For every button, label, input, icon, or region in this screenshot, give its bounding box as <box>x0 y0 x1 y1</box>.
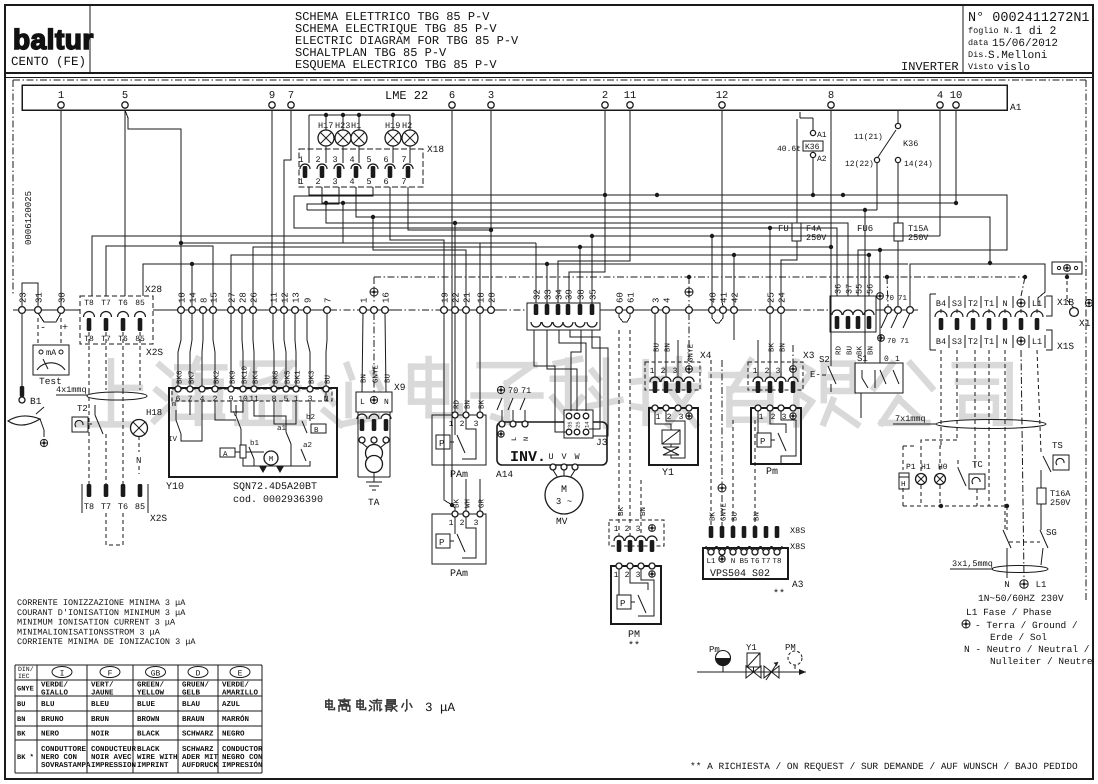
svg-text:1N~50/60HZ 230V: 1N~50/60HZ 230V <box>978 593 1064 604</box>
svg-text:SG: SG <box>1046 528 1057 538</box>
svg-text:P: P <box>439 538 444 548</box>
Y10 pin 4 <box>199 386 205 392</box>
Y10 pin N <box>323 386 329 392</box>
terminal PE 374 <box>370 288 378 296</box>
X1 plug <box>1052 262 1082 274</box>
svg-text:34: 34 <box>555 289 565 300</box>
svg-text:L: L <box>511 437 519 441</box>
wires to X4 <box>654 313 656 377</box>
wire terminal25 feed <box>769 228 771 306</box>
svg-text:250V: 250V <box>806 233 827 243</box>
svg-text:3: 3 <box>673 367 678 376</box>
svg-text:BK: BK <box>454 498 462 508</box>
svg-text:M: M <box>561 485 567 496</box>
Y10 pin 5 <box>283 386 289 392</box>
servomotor Y10 box <box>169 388 337 477</box>
svg-text:6: 6 <box>383 155 388 165</box>
svg-text:ESQUEMA ELECTRICO TBG 85 P-V: ESQUEMA ELECTRICO TBG 85 P-V <box>295 58 497 72</box>
svg-text:31: 31 <box>35 292 45 303</box>
svg-text:250V: 250V <box>1050 498 1071 508</box>
svg-text:3: 3 <box>636 525 641 534</box>
air pressure switch PM <box>611 566 661 624</box>
svg-text:T1: T1 <box>984 299 994 309</box>
svg-text:S2: S2 <box>819 355 830 365</box>
svg-text:X4: X4 <box>700 350 712 361</box>
svg-text:N° 0002411272N1: N° 0002411272N1 <box>968 11 1090 26</box>
svg-text:BK: BK <box>17 731 26 739</box>
svg-text:12: 12 <box>716 90 729 102</box>
svg-text:85: 85 <box>135 299 145 308</box>
svg-text:61: 61 <box>627 292 637 303</box>
Y10 pin 2 <box>212 386 218 392</box>
svg-text:3: 3 <box>332 155 337 165</box>
svg-text:0006120025: 0006120025 <box>24 191 34 245</box>
svg-text:J3: J3 <box>596 437 608 448</box>
svg-text:T1: T1 <box>984 337 994 347</box>
svg-text:L: L <box>360 398 365 407</box>
connector J3 <box>564 410 593 438</box>
svg-text:250V: 250V <box>908 233 929 243</box>
svg-text:a1: a1 <box>277 425 287 433</box>
svg-text:INV.: INV. <box>510 449 546 466</box>
ignition transformer TA connector X9 <box>356 392 392 412</box>
svg-text:SCHWARZ: SCHWARZ <box>182 745 214 754</box>
svg-text:BLEU: BLEU <box>91 701 110 709</box>
svg-text:CORRENTE IONIZZAZIONE MINIMA 3: CORRENTE IONIZZAZIONE MINIMA 3 μA <box>17 598 186 608</box>
svg-text:Y10: Y10 <box>166 482 184 493</box>
wires to VPS <box>710 360 712 534</box>
svg-text:70: 70 <box>887 337 897 346</box>
svg-text:2: 2 <box>315 177 320 187</box>
svg-text:BU: BU <box>732 512 740 521</box>
svg-text:4: 4 <box>349 177 354 187</box>
svg-text:N: N <box>1002 337 1007 347</box>
svg-text:21: 21 <box>463 292 473 303</box>
svg-text:1: 1 <box>656 413 661 422</box>
svg-text:1: 1 <box>449 420 454 429</box>
svg-text:T6: T6 <box>118 502 128 512</box>
TA earth symbol <box>373 472 375 482</box>
milliammeter test instrument <box>37 318 39 345</box>
svg-text:BRUNO: BRUNO <box>41 715 64 724</box>
svg-text:BLACK: BLACK <box>137 745 160 754</box>
svg-text:14: 14 <box>584 421 591 428</box>
svg-text:A: A <box>223 451 228 459</box>
svg-text:a2: a2 <box>303 441 312 450</box>
svg-text:L1: L1 <box>706 558 716 566</box>
svg-text:BK4: BK4 <box>253 370 261 384</box>
svg-text:b2: b2 <box>306 413 315 422</box>
svg-text:X1: X1 <box>1079 318 1091 329</box>
svg-text:3 ~: 3 ~ <box>556 497 572 507</box>
svg-text:+: + <box>62 323 68 334</box>
svg-text:IMPRINT: IMPRINT <box>137 762 169 770</box>
wire 31-30 meter link <box>38 313 61 322</box>
svg-text:4x1mmq: 4x1mmq <box>56 385 87 395</box>
wire terminal12 drop <box>722 110 723 306</box>
wire trunk A y=195 <box>309 187 1007 296</box>
svg-text:mA: mA <box>46 348 57 358</box>
svg-text:4: 4 <box>663 298 673 303</box>
svg-text:Visto: Visto <box>968 62 994 72</box>
svg-text:P: P <box>760 437 765 447</box>
svg-text:L1: L1 <box>1032 299 1042 309</box>
svg-text:24: 24 <box>778 292 788 303</box>
svg-text:T7: T7 <box>101 502 111 512</box>
svg-text:1 di 2: 1 di 2 <box>1015 25 1057 38</box>
svg-text:VERDE/: VERDE/ <box>222 681 250 690</box>
svg-text:ADER MIT: ADER MIT <box>182 754 219 762</box>
svg-text:85: 85 <box>135 502 145 512</box>
svg-text:1: 1 <box>298 177 303 187</box>
svg-text:GNYE: GNYE <box>17 686 34 694</box>
svg-text:MARRÓN: MARRÓN <box>222 714 249 724</box>
svg-text:BRUN: BRUN <box>91 716 109 724</box>
svg-text:WIRE WITH: WIRE WITH <box>137 754 178 762</box>
svg-text:T6: T6 <box>750 557 760 566</box>
svg-text:X8S: X8S <box>790 526 805 536</box>
butterfly valve symbol <box>764 666 779 678</box>
svg-text:IV: IV <box>168 436 178 444</box>
svg-text:MV: MV <box>556 516 568 527</box>
svg-text:55: 55 <box>855 284 865 294</box>
svg-text:3: 3 <box>488 90 494 102</box>
svg-text:14: 14 <box>189 292 199 303</box>
svg-text:NERO: NERO <box>41 730 60 739</box>
svg-text:2: 2 <box>765 367 770 376</box>
svg-text:BU: BU <box>17 701 25 709</box>
wires 32-35 up <box>546 264 548 304</box>
svg-text:GNYE: GNYE <box>720 502 729 521</box>
svg-text:m: m <box>172 401 176 409</box>
svg-text:K36: K36 <box>805 143 820 152</box>
svg-text:GREEN/: GREEN/ <box>137 681 165 690</box>
svg-text:VERT/: VERT/ <box>91 681 114 690</box>
svg-text:2: 2 <box>661 367 666 376</box>
svg-text:data: data <box>968 38 988 48</box>
svg-text:2: 2 <box>460 519 465 528</box>
svg-text:PAm: PAm <box>450 569 468 580</box>
PE dash-dot trunk <box>374 276 1025 278</box>
wire terminal9 drop <box>271 110 273 306</box>
wire trunk H y=263 <box>910 264 1045 306</box>
svg-text:T7: T7 <box>101 299 111 308</box>
wire trunk F y=228 <box>294 187 837 296</box>
svg-text:1: 1 <box>650 367 655 376</box>
svg-text:4: 4 <box>937 90 943 102</box>
svg-text:T2: T2 <box>968 299 978 309</box>
svg-text:IMPRESSION: IMPRESSION <box>91 761 136 770</box>
svg-text:7: 7 <box>401 155 406 165</box>
svg-text:T8: T8 <box>84 502 94 512</box>
svg-text:AZUL: AZUL <box>222 701 241 709</box>
inverter INV A14 <box>497 422 607 465</box>
wires 40 41 loop <box>712 313 723 323</box>
wires X1S down <box>940 350 942 446</box>
svg-text:B4: B4 <box>936 337 946 347</box>
svg-text:GR: GR <box>478 498 487 508</box>
motor MV <box>553 470 558 478</box>
wire trunk I y=246 <box>106 246 213 306</box>
terminals 70 71 <box>877 293 884 300</box>
terminal PE 689 <box>685 288 693 296</box>
svg-text:NERO CON: NERO CON <box>41 753 77 762</box>
dashed bus y=506 <box>903 505 1007 507</box>
svg-text:40: 40 <box>709 292 719 303</box>
svg-text:2: 2 <box>625 525 630 534</box>
wires to X3 <box>757 340 759 377</box>
svg-text:E-: E- <box>810 370 821 380</box>
svg-text:IEC: IEC <box>18 673 30 680</box>
svg-text:27: 27 <box>228 292 238 303</box>
svg-text:SQN72.4D5A20BT: SQN72.4D5A20BT <box>233 482 317 493</box>
svg-text:30: 30 <box>58 292 68 303</box>
svg-text:N: N <box>731 558 736 566</box>
svg-text:3: 3 <box>474 519 479 528</box>
wire trunk G y=236 <box>92 236 940 296</box>
svg-text:10: 10 <box>178 292 188 303</box>
svg-text:X2S: X2S <box>146 347 163 358</box>
svg-text:BK6: BK6 <box>176 370 185 384</box>
svg-text:COURANT D'IONISATION MINIMUM 3: COURANT D'IONISATION MINIMUM 3 μA <box>17 608 186 618</box>
svg-text:Pm: Pm <box>766 467 778 478</box>
svg-text:U: U <box>548 452 553 462</box>
svg-text:L1 Fase / Phase: L1 Fase / Phase <box>966 607 1052 618</box>
svg-text:56: 56 <box>866 284 876 294</box>
svg-text:BU: BU <box>847 346 855 355</box>
wire terminal5 drop <box>124 110 126 296</box>
svg-text:GRUEN/: GRUEN/ <box>182 681 210 690</box>
svg-text:P1: P1 <box>906 463 916 472</box>
svg-text:LME 22: LME 22 <box>385 89 428 103</box>
svg-text:GNYE: GNYE <box>372 364 381 383</box>
Y10 pin 11 <box>251 386 257 392</box>
svg-text:8: 8 <box>828 90 834 102</box>
Y10 pin 1 <box>293 386 299 392</box>
svg-text:9: 9 <box>304 298 314 303</box>
svg-text:GIALLO: GIALLO <box>41 689 69 698</box>
wires block to J3 <box>534 330 567 432</box>
svg-text:P: P <box>620 599 625 609</box>
svg-text:A14: A14 <box>496 469 513 480</box>
wire terminal4 drop <box>939 110 941 236</box>
svg-text:5: 5 <box>284 395 289 404</box>
svg-text:2: 2 <box>771 413 776 422</box>
svg-text:F: F <box>108 670 113 679</box>
svg-text:foglio N.: foglio N. <box>968 26 1014 36</box>
svg-text:CONDUCTEUR: CONDUCTEUR <box>91 745 137 754</box>
svg-text:3x1,5mmq: 3x1,5mmq <box>952 559 993 569</box>
svg-text:N: N <box>384 398 389 407</box>
svg-text:7: 7 <box>401 177 406 187</box>
switch S1 stub <box>860 393 862 418</box>
svg-text:NEGRO: NEGRO <box>222 730 245 739</box>
lamp H1 <box>916 474 927 485</box>
wire terminal6 drop <box>451 110 453 505</box>
connector X2S lower <box>87 484 92 497</box>
svg-text:22: 22 <box>452 292 462 303</box>
control box A1 LME 22 <box>22 85 1007 110</box>
svg-text:70: 70 <box>885 294 895 303</box>
svg-text:X3: X3 <box>803 350 815 361</box>
svg-text:BK2: BK2 <box>213 370 222 384</box>
svg-text:3: 3 <box>474 420 479 429</box>
svg-text:A3: A3 <box>792 579 804 590</box>
svg-text:T2: T2 <box>968 337 978 347</box>
colour code table <box>15 664 262 666</box>
svg-text:BK5: BK5 <box>285 370 293 384</box>
svg-text:B: B <box>314 427 319 435</box>
svg-text:H0: H0 <box>938 463 948 472</box>
schematic dash-dot frame <box>13 79 1086 81</box>
svg-text:42: 42 <box>731 292 741 303</box>
svg-text:5: 5 <box>366 177 371 187</box>
svg-text:2: 2 <box>602 90 608 102</box>
svg-text:12: 12 <box>281 292 291 303</box>
svg-text:S3: S3 <box>952 299 962 309</box>
svg-text:**: ** <box>628 640 640 652</box>
svg-text:CONDUTTORE: CONDUTTORE <box>41 745 87 754</box>
svg-text:E: E <box>238 670 243 679</box>
svg-text:I: I <box>60 670 65 679</box>
svg-text:BN: BN <box>754 512 762 521</box>
svg-text:GELB: GELB <box>182 689 201 698</box>
wires terminals to Y10 <box>180 313 182 340</box>
svg-text:VERDE/: VERDE/ <box>41 681 69 690</box>
svg-text:32: 32 <box>533 289 543 300</box>
svg-text:-: - <box>40 323 46 334</box>
svg-text:2: 2 <box>315 155 320 165</box>
svg-text:PM: PM <box>628 630 640 641</box>
svg-text:**: ** <box>773 588 785 600</box>
svg-text:18: 18 <box>477 292 487 303</box>
svg-text:BN: BN <box>17 716 25 724</box>
svg-text:20: 20 <box>488 292 498 303</box>
svg-text:BK10: BK10 <box>241 365 250 384</box>
svg-text:23: 23 <box>19 292 29 303</box>
svg-text:15/06/2012: 15/06/2012 <box>992 38 1058 50</box>
wire trunk B y=203 <box>322 187 956 203</box>
svg-text:33: 33 <box>544 289 554 300</box>
svg-text:71: 71 <box>898 295 908 303</box>
svg-text:L1: L1 <box>1036 580 1047 590</box>
svg-text:D: D <box>196 670 201 679</box>
relay coil K36 <box>812 118 814 130</box>
svg-text:TC: TC <box>972 460 983 470</box>
svg-text:SCHWARZ: SCHWARZ <box>182 730 214 739</box>
wire terminal10 drop <box>955 110 957 203</box>
svg-text:37: 37 <box>845 284 855 294</box>
svg-text:B5: B5 <box>739 558 749 566</box>
svg-text:X1S: X1S <box>1057 341 1074 352</box>
svg-text:cod. 0002936390: cod. 0002936390 <box>233 494 323 506</box>
svg-text:X28: X28 <box>145 284 162 295</box>
svg-text:W: W <box>574 452 580 462</box>
svg-text:25: 25 <box>767 292 777 303</box>
svg-text:INVERTER: INVERTER <box>901 60 959 74</box>
svg-text:JAUNE: JAUNE <box>91 690 114 698</box>
svg-text:BU: BU <box>325 375 333 384</box>
terminal block X1B/X1S <box>929 294 931 350</box>
wire terminal8 drop to S2 <box>830 110 832 366</box>
gas pressure switch Pm <box>751 408 801 464</box>
svg-text:T2: T2 <box>77 404 88 414</box>
svg-text:1: 1 <box>449 519 454 528</box>
svg-text:NOIR: NOIR <box>91 730 110 739</box>
svg-text:11(21): 11(21) <box>854 133 883 142</box>
relay contact K36 <box>897 110 899 124</box>
svg-text:BK: BK <box>710 511 718 521</box>
svg-text:BROWN: BROWN <box>137 715 160 724</box>
svg-text:N: N <box>136 456 141 466</box>
wire 22 up <box>454 223 456 306</box>
svg-text:71: 71 <box>900 338 910 346</box>
svg-text:60: 60 <box>616 292 626 303</box>
svg-text:14(24): 14(24) <box>904 160 933 169</box>
svg-text:Y1: Y1 <box>746 643 757 653</box>
svg-text:7: 7 <box>288 90 294 102</box>
svg-text:N: N <box>523 437 531 441</box>
wire terminal11 drop <box>558 110 630 303</box>
svg-text:10: 10 <box>950 90 963 102</box>
svg-text:BN: BN <box>868 346 876 355</box>
wires to PAm2 <box>444 313 452 505</box>
svg-text:H: H <box>901 481 906 489</box>
svg-text:Nulleiter / Neutre: Nulleiter / Neutre <box>990 656 1093 667</box>
svg-text:- Terra / Ground /: - Terra / Ground / <box>975 620 1078 631</box>
wire trunk 9 y=247 <box>253 247 831 306</box>
svg-text:T7: T7 <box>761 558 770 566</box>
svg-text:1: 1 <box>759 413 764 422</box>
wire X18 pin drops <box>390 187 444 306</box>
lamp bus wire <box>309 114 410 116</box>
svg-text:11: 11 <box>270 292 280 303</box>
svg-text:X9: X9 <box>394 382 406 393</box>
fuse T16A 250V <box>1040 470 1042 488</box>
svg-text:GB: GB <box>151 670 161 679</box>
svg-text:8: 8 <box>200 298 210 303</box>
svg-text:MINIMALIONISATIONSSTROM 3 μA: MINIMALIONISATIONSSTROM 3 μA <box>17 627 161 637</box>
svg-text:CORRIENTE MINIMA DE IONIZACION: CORRIENTE MINIMA DE IONIZACION 3 μA <box>17 637 196 647</box>
lamp H0 <box>935 474 946 485</box>
svg-text:SOVRASTAMPA: SOVRASTAMPA <box>41 761 91 770</box>
svg-text:GNYE: GNYE <box>687 343 696 362</box>
svg-text:YELLOW: YELLOW <box>137 689 165 698</box>
svg-text:A1: A1 <box>1010 102 1022 113</box>
connector block 32-35 <box>527 303 600 330</box>
svg-text:1: 1 <box>58 90 64 102</box>
chinese note text <box>326 700 335 710</box>
svg-text:K36: K36 <box>903 139 918 149</box>
title block separator <box>5 72 1093 74</box>
Y10 pin 10 <box>240 386 246 392</box>
svg-text:BK7: BK7 <box>189 370 197 384</box>
fuse FU F4A 250V <box>796 119 798 223</box>
svg-text:BLAU: BLAU <box>182 701 201 709</box>
svg-text:MINIMUM IONISATION CURRENT 3 μ: MINIMUM IONISATION CURRENT 3 μA <box>17 618 176 628</box>
svg-text:1: 1 <box>614 571 619 580</box>
svg-text:FU: FU <box>778 224 789 234</box>
Y10 pin 7 <box>187 386 193 392</box>
svg-text:H18: H18 <box>146 408 162 418</box>
svg-text:28: 28 <box>239 292 249 303</box>
svg-text:L1: L1 <box>1032 337 1042 347</box>
svg-text:3 μA: 3 μA <box>425 701 456 715</box>
wire trunk C y=210 <box>307 187 339 210</box>
svg-text:2: 2 <box>460 420 465 429</box>
svg-text:B4: B4 <box>936 299 946 309</box>
connector X28/X2S <box>80 296 153 344</box>
